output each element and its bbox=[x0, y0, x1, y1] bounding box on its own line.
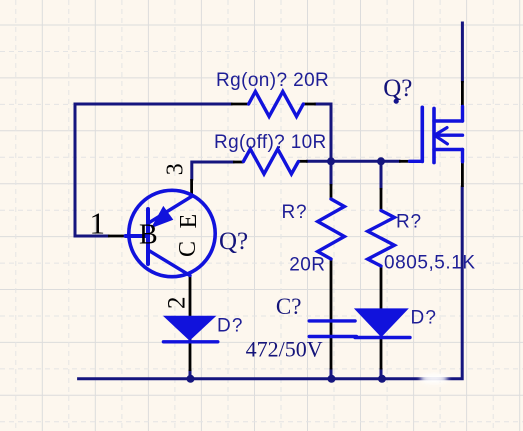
svg-text:D?: D? bbox=[411, 308, 438, 329]
svg-text:20R: 20R bbox=[289, 255, 325, 276]
svg-text:Rg(off)? 10R: Rg(off)? 10R bbox=[214, 132, 327, 153]
svg-text:E: E bbox=[176, 214, 202, 229]
svg-text:Q?: Q? bbox=[383, 75, 412, 102]
svg-text:R?: R? bbox=[282, 202, 308, 223]
svg-text:3: 3 bbox=[163, 163, 189, 175]
svg-text:Q?: Q? bbox=[219, 228, 248, 255]
svg-text:2: 2 bbox=[163, 297, 190, 310]
svg-text:B: B bbox=[139, 220, 158, 251]
svg-text:0805,5.1K: 0805,5.1K bbox=[384, 253, 476, 274]
svg-text:Rg(on)? 20R: Rg(on)? 20R bbox=[216, 70, 329, 91]
svg-text:472/50V: 472/50V bbox=[246, 337, 323, 362]
svg-text:R?: R? bbox=[396, 212, 422, 233]
svg-text:D?: D? bbox=[217, 315, 244, 336]
svg-text:C?: C? bbox=[276, 294, 302, 319]
svg-text:C: C bbox=[175, 241, 201, 257]
svg-text:1: 1 bbox=[90, 206, 106, 241]
